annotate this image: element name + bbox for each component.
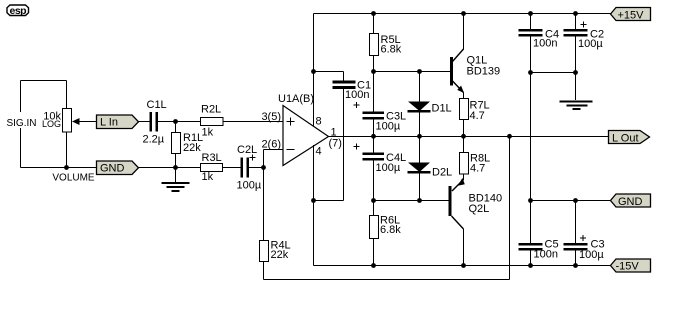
resistor R7L: [460, 99, 469, 153]
svg-text:SIG.IN: SIG.IN: [6, 118, 36, 129]
capacitor C1L: [150, 112, 159, 132]
junction ground node: [173, 165, 178, 170]
capacitor C4L: [363, 137, 385, 201]
polarity plus C4L: [354, 144, 360, 150]
svg-text:+15V: +15V: [618, 10, 645, 22]
capacitor C1: [314, 72, 356, 201]
svg-text:6.8k: 6.8k: [381, 44, 402, 56]
svg-text:100µ: 100µ: [376, 121, 401, 133]
wire feedback bottom run: [264, 137, 510, 280]
wire L In row to C1L: [139, 121, 150, 123]
capacitor C5: [519, 201, 543, 266]
label C5 100n: [534, 239, 559, 261]
svg-text:4.7: 4.7: [470, 110, 485, 122]
wire signal ground row left: [21, 167, 97, 169]
svg-text:BD139: BD139: [467, 66, 501, 78]
svg-text:100µ: 100µ: [578, 38, 603, 50]
junction feedback node: [261, 165, 266, 170]
svg-text:1k: 1k: [202, 171, 214, 183]
svg-text:100n: 100n: [534, 249, 558, 261]
svg-text:8: 8: [316, 116, 322, 128]
transistor Q1L: [450, 14, 464, 99]
connector L Out: [609, 131, 650, 145]
svg-text:U1A(B): U1A(B): [278, 93, 314, 105]
polarity plus C3: [580, 235, 586, 241]
connector GND input: [97, 161, 139, 175]
svg-text:esp: esp: [10, 5, 27, 17]
svg-text:1k: 1k: [202, 127, 214, 139]
polarity plus C2: [581, 22, 587, 28]
junction -15V C3: [573, 263, 578, 268]
label C3 100µ: [579, 239, 605, 262]
junction C2 ground join: [573, 70, 578, 75]
junction rail C4: [528, 11, 533, 16]
svg-text:100µ: 100µ: [376, 162, 401, 174]
wire C4/C2 ground join: [531, 72, 576, 74]
junction pin 4 / C1: [311, 198, 316, 203]
junction output D1L/D2L: [417, 134, 422, 139]
ground symbol input: [162, 168, 190, 192]
svg-text:L Out: L Out: [612, 133, 639, 145]
junction GND row C5 column: [528, 198, 533, 203]
svg-text:LOG: LOG: [42, 119, 61, 129]
value 10k LOG: [42, 111, 62, 130]
label R5L 6.8k: [381, 34, 402, 56]
label R4L 22k: [271, 240, 291, 262]
svg-text:6.8k: 6.8k: [380, 224, 401, 236]
resistor R2L: [201, 118, 284, 126]
svg-text:100n: 100n: [345, 89, 369, 101]
svg-text:-15V: -15V: [616, 261, 640, 273]
wire Q1L base row: [374, 71, 451, 73]
junction -15V Q2L collector: [461, 263, 466, 268]
svg-text:D1L: D1L: [432, 103, 452, 115]
junction output C3L/C4L: [371, 134, 376, 139]
label BD140 Q2L: [469, 193, 503, 216]
junction base row D2L: [417, 198, 422, 203]
wire +15V top rail: [314, 13, 611, 15]
connector L In: [97, 115, 139, 129]
svg-text:3(5): 3(5): [261, 111, 281, 123]
svg-text:2.2µ: 2.2µ: [143, 134, 165, 146]
label C1 100n: [345, 80, 371, 102]
capacitor C3: [564, 201, 588, 266]
label C2 100µ: [578, 29, 604, 51]
label C2L 100µ: [237, 144, 262, 192]
svg-text:GND: GND: [618, 196, 643, 208]
resistor R8L: [460, 153, 469, 181]
junction output R7L/R8L: [461, 134, 466, 139]
label R1L 22k: [183, 132, 203, 154]
wire pin 8 to +15V rail: [313, 14, 315, 127]
resistor R3L: [201, 164, 241, 172]
wire -15V bottom rail: [314, 265, 611, 267]
polarity plus C2L: [250, 155, 256, 161]
wire feedback node to inverting input: [264, 150, 284, 168]
capacitor C2L: [241, 158, 264, 178]
junction rail C2: [573, 11, 578, 16]
label R2L 1k: [201, 104, 221, 139]
ground symbol supply: [560, 73, 593, 110]
svg-text:100µ: 100µ: [579, 249, 604, 261]
resistor R1L: [172, 122, 181, 168]
svg-text:4.7: 4.7: [470, 163, 485, 175]
junction C4 ground join: [528, 70, 533, 75]
svg-text:R2L: R2L: [201, 104, 221, 116]
junction base row R5L: [371, 69, 376, 74]
label C4L 100µ: [376, 152, 407, 174]
svg-text:4: 4: [316, 146, 322, 158]
wire Q2L base row: [374, 200, 450, 202]
label C3L 100µ: [376, 111, 407, 133]
svg-text:L In: L In: [100, 117, 118, 129]
svg-text:D2L: D2L: [432, 167, 452, 179]
svg-text:(7): (7): [329, 138, 342, 150]
svg-text:R3L: R3L: [202, 152, 222, 164]
junction rail Q1L collector: [461, 11, 466, 16]
svg-text:100n: 100n: [533, 38, 557, 50]
wire GND row right: [531, 200, 611, 202]
junction pin 8 / C1: [311, 69, 316, 74]
label R6L 6.8k: [380, 215, 401, 237]
label R8L 4.7: [470, 153, 490, 175]
diode D1L: [408, 72, 431, 137]
svg-text:22k: 22k: [183, 142, 201, 154]
junction base row D1L: [417, 69, 422, 74]
svg-text:100µ: 100µ: [237, 180, 262, 192]
wire C1L to R2L input node: [158, 121, 201, 123]
label R7L 4.7: [470, 100, 490, 123]
potentiometer wiper arrow: [72, 118, 97, 125]
svg-text:GND: GND: [100, 163, 125, 175]
svg-text:VOLUME: VOLUME: [52, 173, 95, 184]
resistor R4L: [260, 168, 269, 280]
SIG.IN source box outline: [21, 81, 67, 168]
wire output row: [329, 136, 609, 138]
capacitor C3L: [363, 72, 385, 137]
capacitor C4: [519, 14, 543, 201]
label C4 100n: [533, 29, 559, 50]
junction output feedback tap: [507, 134, 512, 139]
svg-text:22k: 22k: [271, 249, 289, 261]
label Q1L BD139: [467, 55, 501, 78]
diode D2L: [408, 137, 431, 201]
ESP logo: [7, 5, 29, 17]
connector -15V: [611, 259, 651, 273]
potentiometer VR1 10k LOG body: [63, 81, 72, 168]
junction input node: [173, 119, 178, 124]
svg-text:C1L: C1L: [147, 99, 167, 111]
junction pot bottom: [64, 165, 69, 170]
connector GND output: [611, 194, 651, 208]
connector +15V: [611, 8, 651, 22]
wire signal ground row right: [139, 167, 201, 169]
junction -15V C5: [528, 263, 533, 268]
resistor R6L: [370, 201, 379, 266]
polarity plus C3L: [354, 102, 360, 108]
junction GND row C3 column: [573, 198, 578, 203]
svg-text:2(6): 2(6): [261, 139, 281, 151]
resistor R5L: [370, 14, 379, 72]
junction -15V R6L: [371, 263, 376, 268]
svg-text:C2L: C2L: [237, 144, 257, 156]
transistor Q2L: [449, 178, 465, 266]
op-amp U1A(B) triangle: [283, 106, 329, 166]
svg-text:Q2L: Q2L: [469, 203, 490, 215]
junction base row C4L: [371, 198, 376, 203]
label R3L 1k: [202, 152, 222, 183]
capacitor C2: [564, 14, 588, 73]
junction rail R5L: [371, 11, 376, 16]
wire pin 4 down to -15V rail: [313, 145, 315, 266]
